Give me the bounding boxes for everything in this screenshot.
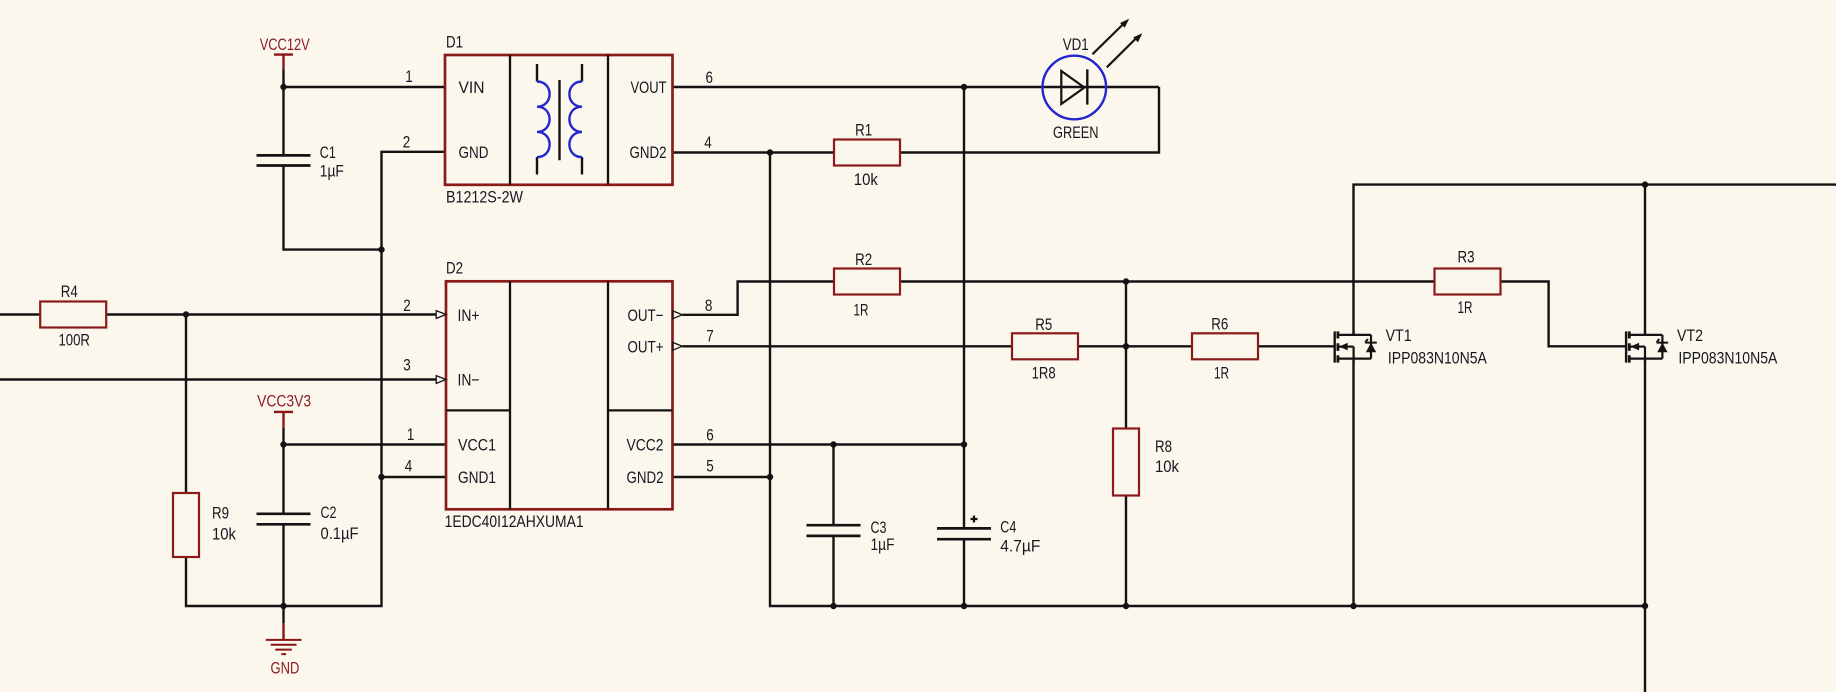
wire VT1 drain up and top rail to right edge [1354,185,1836,335]
svg-text:1: 1 [407,425,415,444]
wire VCC3V3 node to D2 VCC1 pin 1 [284,443,447,445]
wire VCC3V3 stub down to C2 [282,428,284,514]
wire D2 OUT- pin 8 up to R2 left [682,282,834,315]
wire VT1 source down to rail [1352,359,1354,606]
svg-text:10k: 10k [212,524,236,543]
resistor R3 1R [1435,248,1501,318]
svg-text:VCC12V: VCC12V [260,35,310,54]
svg-text:C1: C1 [320,143,336,162]
svg-text:OUT+: OUT+ [628,337,664,356]
svg-text:1R: 1R [1458,298,1473,317]
svg-text:2: 2 [403,296,411,315]
wire D1 VOUT pin 6 through LED VD1 [673,86,1160,88]
wire D2 GND2 pin 5 to secondary GND [673,476,771,478]
svg-text:R1: R1 [855,120,872,139]
wire C2 bottom to GND rail [282,524,284,606]
svg-text:R9: R9 [212,504,229,523]
transformer inside D1 [537,64,582,175]
capacitor C2 0.1uF [257,503,359,543]
junction (1126,281.5) [1123,278,1129,284]
svg-text:D2: D2 [446,259,463,278]
junction (964,606) [961,603,967,609]
svg-text:IPP083N10N5A: IPP083N10N5A [1678,348,1778,367]
wire gate node down to R8 top [1125,282,1127,429]
svg-text:VD1: VD1 [1063,35,1089,54]
svg-text:1EDC40I12AHXUMA1: 1EDC40I12AHXUMA1 [445,512,584,531]
wire R8 bottom to rail [1125,496,1127,607]
junction (283.5,87) [280,84,286,90]
svg-text:3: 3 [403,356,411,375]
wire C4 top [963,445,965,529]
junction (283.5,444.5) [280,441,286,447]
svg-text:4.7µF: 4.7µF [1000,536,1040,555]
svg-text:R4: R4 [61,282,78,301]
junction (381.5,249.6) [378,246,384,252]
svg-text:C2: C2 [321,503,337,522]
svg-text:2: 2 [403,133,411,152]
svg-text:VCC1: VCC1 [458,436,496,455]
junction (1645,184.6) [1642,181,1648,187]
junction (770,152.5) [767,149,773,155]
capacitor C4 4.7uF (polarized) [937,517,1040,555]
wire C3 top [832,445,834,526]
svg-text:R3: R3 [1458,248,1475,267]
svg-text:R5: R5 [1035,315,1052,334]
wire VT2 source [1644,359,1646,606]
svg-text:5: 5 [706,457,714,476]
svg-text:100R: 100R [58,330,90,349]
svg-text:GND2: GND2 [630,143,667,162]
junction (1645,606) [1642,603,1648,609]
svg-text:VIN: VIN [459,78,485,97]
svg-text:6: 6 [706,68,714,87]
transistor VT1 IPP083N10N5A [1335,326,1488,367]
wire R6 right to VT1 gate [1258,345,1335,347]
svg-text:IN−: IN− [458,371,480,390]
wire C1 bottom to primary GND node [284,166,382,250]
junction (833.5,606) [830,603,836,609]
svg-text:R8: R8 [1155,437,1172,456]
svg-text:R6: R6 [1211,315,1228,334]
svg-text:8: 8 [705,296,713,315]
svg-text:10k: 10k [854,170,878,189]
power symbol VCC3V3 [257,392,311,428]
svg-text:0.1µF: 0.1µF [321,524,359,543]
resistor R5 1R8 [1012,315,1078,383]
svg-text:1R: 1R [854,301,869,320]
junction (964,87) [961,84,967,90]
resistor R9 10k (vertical) [173,493,236,557]
svg-text:C4: C4 [1000,517,1016,536]
wire R9 top to R4 junction [185,315,187,494]
svg-text:6: 6 [706,426,714,445]
junction (833.5,444.5) [830,441,836,447]
svg-text:B1212S-2W: B1212S-2W [446,188,523,207]
wire D2 VCC2 pin 6 to C4 top [673,443,965,445]
transistor VT2 IPP083N10N5A [1626,326,1778,367]
wire VCC12V stub down to C1 top [282,69,284,155]
svg-text:4: 4 [704,133,712,152]
junction (1353.5,606) [1350,603,1356,609]
svg-text:VCC3V3: VCC3V3 [257,392,311,411]
svg-text:4: 4 [405,457,413,476]
wire net VCC12V to D1 VIN pin 1 [284,86,446,88]
svg-text:IPP083N10N5A: IPP083N10N5A [1388,348,1488,367]
svg-text:7: 7 [706,327,714,346]
wire C3 bottom to rail [832,536,834,606]
svg-text:GND1: GND1 [458,468,496,487]
output arrow pin OUT- of D2 [673,311,683,319]
wire VT2 drain [1644,185,1646,335]
svg-text:R2: R2 [855,250,872,269]
wire LED return down to R1 right [900,87,1159,153]
resistor R6 1R [1192,315,1258,383]
svg-text:10k: 10k [1155,457,1179,476]
junction (283.5,606) [280,603,286,609]
wire D1 GND pin 2 down primary GND vertical and bottom-left rail to R9 bottom [186,152,445,606]
resistor R2 1R [834,250,900,320]
svg-text:D1: D1 [446,33,463,52]
input arrow pin IN- of D2 [436,376,446,384]
svg-text:1µF: 1µF [320,162,344,181]
wire D1 GND2 pin 4 to R1 left [673,151,835,153]
svg-text:GND: GND [459,143,489,162]
svg-text:GREEN: GREEN [1053,123,1099,142]
wire R2 right to R3 left [900,280,1435,282]
wire input to D2 IN- pin 3 [0,378,436,380]
DC-DC converter D1 B1212S-2W box [445,33,673,207]
svg-text:1R: 1R [1214,364,1229,383]
wire C4 bottom to rail [963,539,965,606]
wire GND1 pin 4 of D2 [382,476,447,478]
resistor R1 10k [834,120,900,189]
junction (770,477) [767,474,773,480]
junction (1126,346.3) [1123,343,1129,349]
wire secondary GND vertical x770 and bottom rail to VT2 source [770,153,1645,607]
svg-text:1R8: 1R8 [1032,364,1056,383]
svg-text:1: 1 [405,67,413,86]
junction (186,314.5) [183,311,189,317]
wire R4 right to D2 IN+ pin 2 [107,313,437,315]
gate driver D2 1EDC40I12AHXUMA1 box [445,259,673,532]
wire R5 right to R6 left [1078,345,1192,347]
wire VT2 source continuation to bottom edge [1644,606,1646,692]
svg-text:VT2: VT2 [1677,326,1703,345]
resistor R4 100R [40,282,106,349]
svg-text:VOUT: VOUT [631,78,667,97]
LED VD1 GREEN [1043,19,1143,142]
power symbol VCC12V [260,35,310,69]
wire R3 right down to VT2 gate [1500,282,1627,347]
ground GND [266,606,302,677]
output arrow pin OUT+ of D2 [673,342,683,350]
capacitor C3 1uF [807,518,895,554]
svg-text:1µF: 1µF [871,535,895,554]
resistor R8 10k (vertical) [1113,429,1179,496]
junction (964,444.5) [961,441,967,447]
junction (381.5,477) [378,474,384,480]
svg-text:IN+: IN+ [458,306,480,325]
svg-text:VT1: VT1 [1386,326,1412,345]
capacitor C1 1uF [257,143,344,181]
svg-text:OUT−: OUT− [628,306,664,325]
svg-text:VCC2: VCC2 [627,436,664,455]
svg-text:GND2: GND2 [627,468,664,487]
input arrow pin IN+ of D2 [436,311,446,319]
svg-text:GND: GND [271,658,300,677]
junction (1126,606) [1123,603,1129,609]
wire input to R4 left [0,313,40,315]
wire VOUT net down to VCC2 net [963,87,965,445]
wire D2 OUT+ pin 7 to R5 left [682,345,1012,347]
